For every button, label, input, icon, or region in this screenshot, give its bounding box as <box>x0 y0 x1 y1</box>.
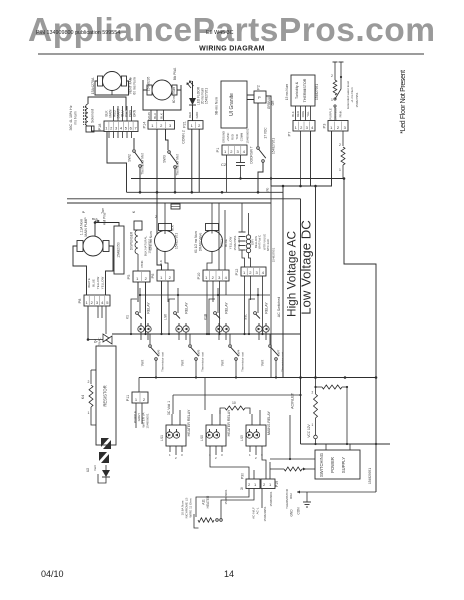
wire relay SSL coil return <box>249 299 255 334</box>
bus line6 triac row <box>112 333 301 335</box>
wires M5 right to P10 <box>218 222 220 270</box>
svg-text:15 ms Num: 15 ms Num <box>285 84 289 101</box>
svg-text:P: P <box>258 95 261 100</box>
svg-text:P8: P8 <box>78 299 82 304</box>
wires HE1 top <box>241 203 243 232</box>
svg-text:Hall Pins: Hall Pins <box>103 212 107 225</box>
svg-text:P30: P30 <box>241 473 245 479</box>
svg-text:9B-ms Num: 9B-ms Num <box>215 97 219 115</box>
motor M3 main pump <box>77 236 109 256</box>
svg-text:AC Switched: AC Switched <box>277 297 281 318</box>
svg-text:K1: K1 <box>126 315 130 319</box>
svg-text:P3: P3 <box>323 124 327 129</box>
svg-text:SSL: SSL <box>244 314 248 320</box>
wire M1 coil link <box>88 97 126 110</box>
svg-text:154A8295: 154A8295 <box>147 77 151 92</box>
svg-text:HEATER RELAY: HEATER RELAY <box>187 409 191 436</box>
svg-text:GRD: GRD <box>195 111 199 119</box>
svg-text:Thermistor swt: Thermistor swt <box>281 352 285 372</box>
svg-text:P10: P10 <box>197 273 201 280</box>
wire relay LS6 coil return <box>169 299 175 334</box>
svg-text:UI Granite: UI Granite <box>229 93 235 116</box>
wire bus4 corner down acinlet <box>300 199 302 395</box>
svg-text:PINK: PINK <box>140 260 144 267</box>
svg-text:U2: U2 <box>86 468 90 472</box>
wire R12 right down <box>346 387 348 444</box>
svg-text:15A4270A: 15A4270A <box>91 77 95 94</box>
svg-text:36C 4L 10% Hz: 36C 4L 10% Hz <box>69 105 73 130</box>
svg-text:TRIAC: TRIAC <box>98 337 102 347</box>
motor M5 drain valve <box>202 224 223 252</box>
svg-text:GREY: GREY <box>137 413 141 422</box>
wire stub P30 pin2 <box>253 470 255 479</box>
svg-text:HEATER RELAY: HEATER RELAY <box>227 409 231 436</box>
diode D2 bottom <box>105 465 107 470</box>
svg-text:NTC 2AC: NTC 2AC <box>266 239 270 251</box>
wire P1 pin1 down <box>226 155 228 192</box>
svg-text:Vent: Vent <box>261 360 265 366</box>
svg-text:ms Num: ms Num <box>74 111 78 124</box>
svg-text:GRN: GRN <box>133 109 137 117</box>
svg-text:RELAY: RELAY <box>185 302 189 314</box>
IC U3 UI Granite board <box>221 81 247 128</box>
connector P14 <box>148 121 175 130</box>
svg-text:CONN 2: CONN 2 <box>182 130 186 144</box>
svg-text:60 ms Num: 60 ms Num <box>172 87 176 104</box>
svg-text:ACINLET: ACINLET <box>291 392 295 409</box>
svg-text:1.11A Nom: 1.11A Nom <box>80 219 84 236</box>
svg-text:BLU: BLU <box>153 113 157 119</box>
resistor R3 <box>341 147 345 165</box>
svg-text:VCC 12V: VCC 12V <box>307 423 311 437</box>
svg-text:1: 1 <box>339 168 341 172</box>
heater element bracket <box>194 514 199 528</box>
svg-text:2: 2 <box>155 215 157 219</box>
bus line2 <box>271 185 332 187</box>
svg-text:MAIN PUMP: MAIN PUMP <box>84 217 88 237</box>
svg-text:1: 1 <box>312 423 314 427</box>
svg-text:1: 1 <box>88 411 90 415</box>
svg-text:K4: K4 <box>81 395 85 399</box>
svg-text:LS6: LS6 <box>164 314 168 320</box>
wire P19 pin down <box>261 489 263 509</box>
thermistor RK2 <box>270 468 284 470</box>
wire mains relay to supply <box>289 415 291 459</box>
svg-text:Solenoid: Solenoid <box>91 109 95 123</box>
svg-text:MAIN: MAIN <box>147 112 151 120</box>
svg-text:LS1: LS1 <box>160 435 164 441</box>
svg-text:154827951: 154827951 <box>175 233 179 249</box>
wire step down right side <box>375 444 377 492</box>
svg-text:2: 2 <box>130 77 132 81</box>
wire P5 pins down <box>137 282 139 302</box>
svg-text:HEATER: HEATER <box>206 495 210 508</box>
wire doorsw vertical lower <box>270 186 272 378</box>
svg-text:PURPLE: PURPLE <box>329 108 333 120</box>
wire P3 pin1 to bus2 <box>330 131 332 186</box>
svg-text:RED: RED <box>296 111 300 117</box>
svg-text:154827951: 154827951 <box>315 84 319 100</box>
svg-text:Vio: Vio <box>266 188 270 193</box>
switch SW1 door switch <box>257 147 260 150</box>
relay module LS5 <box>246 425 266 446</box>
svg-text:BLK: BLK <box>291 111 295 117</box>
wire bus1 to step down <box>344 179 376 445</box>
wire L1 to P5 <box>137 254 139 271</box>
resistor module RESISTOR <box>96 346 116 445</box>
svg-text:RELAY: RELAY <box>147 302 151 314</box>
relay SSL <box>257 288 259 313</box>
connector P21 <box>188 121 203 130</box>
svg-text:Turbidity &: Turbidity & <box>295 81 299 99</box>
wire P10 pins down <box>206 281 208 334</box>
svg-text:*Led Floor Not Present: *Led Floor Not Present <box>400 70 407 134</box>
bus line3 <box>127 191 284 193</box>
connector P19 <box>261 479 275 489</box>
P18 pin stubs <box>108 132 110 139</box>
svg-text:154806001: 154806001 <box>146 413 150 428</box>
wire AC switched vertical <box>282 186 284 378</box>
inductor L2 wax motor coil <box>246 235 250 239</box>
svg-text:P7: P7 <box>288 132 292 137</box>
svg-text:EII W45 3C: EII W45 3C <box>206 30 234 36</box>
wire P6 pins down <box>161 281 163 334</box>
svg-text:Vent: Vent <box>221 360 225 366</box>
bus line1 <box>131 178 344 180</box>
svg-text:WIRE 11 Ohm: WIRE 11 Ohm <box>189 498 193 518</box>
connector P2 <box>254 91 266 103</box>
connector P30 <box>246 479 260 489</box>
svg-text:DRAIN Valve: DRAIN Valve <box>199 233 203 252</box>
bus line4 long <box>67 198 301 200</box>
svg-text:YELLOW: YELLOW <box>229 237 233 250</box>
relay K1 <box>139 288 141 313</box>
wire SW3 to bus <box>174 169 176 193</box>
svg-text:2: 2 <box>331 74 333 78</box>
switch SW5 thermistor <box>189 334 191 344</box>
wire stub P19 pin2 <box>269 462 271 479</box>
svg-text:ORG: ORG <box>301 110 305 117</box>
svg-text:P/N 134909800 publication 5995: P/N 134909800 publication 599554 <box>36 30 120 36</box>
wire P7 pin2 to bus <box>300 131 302 186</box>
svg-text:154829951: 154829951 <box>263 506 267 521</box>
wire PS bottom rail <box>297 491 376 493</box>
svg-text:SWITCHING: SWITCHING <box>319 453 324 477</box>
wire P12 pins down <box>244 276 246 334</box>
switch SW2 <box>133 138 135 149</box>
wire door switch vertical <box>257 103 259 146</box>
svg-text:P19: P19 <box>275 481 279 487</box>
svg-text:YELLOW: YELLOW <box>96 277 100 290</box>
svg-text:WIRING DIAGRAM: WIRING DIAGRAM <box>199 46 265 53</box>
svg-text:17 VDC: 17 VDC <box>264 127 268 139</box>
bus line5 <box>67 202 271 204</box>
svg-text:61 1/2 ms Num: 61 1/2 ms Num <box>194 231 198 253</box>
svg-text:POWER: POWER <box>330 457 335 473</box>
connector P18 <box>104 121 138 132</box>
wire acinlet corner to bus8 <box>300 395 302 444</box>
wire M4 top to bus5 <box>164 203 166 234</box>
svg-text:GROUND: GROUND <box>222 131 226 143</box>
svg-text:LS0: LS0 <box>200 435 204 441</box>
ground symbol G1 <box>306 492 308 502</box>
relay module LS0 <box>206 425 226 446</box>
connector P6 <box>157 270 174 281</box>
bus line7 <box>139 377 377 379</box>
svg-text:Blk PWA: Blk PWA <box>173 67 177 80</box>
svg-text:BLK: BLK <box>159 260 163 266</box>
relay module LS1 <box>166 425 186 446</box>
wire P14 pin2 long vertical to P6 <box>157 129 162 270</box>
svg-text:C2: C2 <box>221 162 227 167</box>
svg-text:TXD: TXD <box>235 134 239 139</box>
svg-text:RXD: RXD <box>231 134 235 140</box>
connector P1 <box>222 145 247 155</box>
relay LS6 <box>177 288 179 313</box>
wires motor M1 to P18 <box>113 106 115 121</box>
pressure switch S2 chain <box>334 62 336 80</box>
svg-text:15A82050: 15A82050 <box>117 242 121 258</box>
wire P7 pin4 long vertical <box>310 131 312 186</box>
svg-text:P0L 2AC: P0L 2AC <box>237 236 241 249</box>
relay K1B <box>217 288 219 313</box>
svg-text:P14: P14 <box>143 122 147 129</box>
svg-text:1: 1 <box>331 98 333 102</box>
wire low voltage rail <box>315 186 317 378</box>
svg-text:P12: P12 <box>235 269 239 276</box>
resistor R11 nichrome wire <box>198 518 214 522</box>
connector P5 <box>133 271 150 282</box>
resistor R10 <box>225 406 245 410</box>
svg-text:LS5: LS5 <box>240 435 244 441</box>
switch SW6 thermistor <box>149 334 151 344</box>
connector P12 <box>241 267 266 276</box>
svg-text:RELAY: RELAY <box>225 302 229 314</box>
svg-text:+5VDC: +5VDC <box>226 133 230 142</box>
svg-text:154827951: 154827951 <box>205 88 209 104</box>
svg-text:DOORSW T: DOORSW T <box>250 146 254 164</box>
wire pressure switch second leg <box>340 62 342 77</box>
svg-text:P21: P21 <box>183 121 187 128</box>
svg-text:14: 14 <box>224 569 234 579</box>
bus relay feed rail <box>140 294 270 296</box>
bus line8 power <box>301 443 391 445</box>
wire heater relay feeds <box>173 394 301 396</box>
wire M3 left tab loop <box>73 246 87 295</box>
wire pump top <box>94 221 97 224</box>
wire P21 pins to bus <box>191 129 193 192</box>
connector P3 <box>328 121 348 132</box>
svg-text:Low Voltage DC: Low Voltage DC <box>298 220 313 315</box>
svg-text:Thermistor swt: Thermistor swt <box>241 352 245 372</box>
triac U2 pair <box>101 438 109 447</box>
svg-text:154827951: 154827951 <box>355 92 359 107</box>
wire relay K1 coil return <box>131 299 137 334</box>
wire T1 to P18 <box>92 126 105 131</box>
svg-text:154806001: 154806001 <box>269 491 273 506</box>
wires PS1 top feeds <box>325 444 327 450</box>
svg-text:Vent: Vent <box>141 360 145 366</box>
svg-text:154829951: 154829951 <box>368 468 372 484</box>
wire P11 pins down <box>135 403 137 428</box>
wire P8 pins down <box>97 307 99 319</box>
svg-text:BLK: BLK <box>92 217 98 221</box>
svg-text:60 ms Num: 60 ms Num <box>133 77 137 95</box>
heater element HE1 <box>239 231 246 233</box>
svg-text:3C Vdd 1: 3C Vdd 1 <box>167 401 171 415</box>
connector P11 <box>138 378 140 393</box>
fuse F1 <box>171 204 180 209</box>
svg-text:SUPPLY: SUPPLY <box>341 457 346 473</box>
wire P2 right down <box>266 96 271 186</box>
svg-text:RESISTOR: RESISTOR <box>103 385 108 406</box>
resistor K4 bypass <box>91 369 96 371</box>
LED D1 floor led <box>192 81 194 98</box>
svg-text:SW2: SW2 <box>128 154 132 162</box>
svg-text:2: 2 <box>339 143 341 147</box>
svg-text:Thermistor Met: Thermistor Met <box>176 154 180 176</box>
svg-text:RELAY: RELAY <box>265 302 269 314</box>
svg-text:04/10: 04/10 <box>41 569 64 579</box>
wire M1 loop <box>95 81 129 95</box>
connector P7 <box>293 121 315 132</box>
svg-text:RK2: RK2 <box>289 493 293 499</box>
wire P3 pin3 resistor to bus1 <box>342 131 344 146</box>
svg-text:CON: CON <box>297 507 301 515</box>
wire M3 right tab down <box>106 246 114 295</box>
svg-text:THERMISTOR: THERMISTOR <box>303 78 307 102</box>
wire P18 pin1 routing to bus <box>107 132 127 193</box>
resistor R12 horizontal <box>316 386 323 388</box>
inductor L1 dispenser coil <box>134 221 142 230</box>
wire heater loop left <box>196 489 249 518</box>
wire M4 to P6 <box>165 252 168 271</box>
svg-text:SW3: SW3 <box>163 155 167 163</box>
wire M5 to P10 <box>207 252 212 271</box>
label box 15A82050 <box>114 226 124 274</box>
svg-text:BLK: BLK <box>171 225 175 231</box>
svg-text:DISPENSER: DISPENSER <box>130 231 134 250</box>
svg-text:154806001: 154806001 <box>246 128 250 143</box>
svg-text:R: R <box>241 487 244 491</box>
svg-text:PINK: PINK <box>339 111 343 118</box>
svg-text:Vent: Vent <box>181 360 185 366</box>
svg-text:154827951: 154827951 <box>272 138 276 154</box>
svg-text:2: 2 <box>312 391 314 395</box>
svg-text:10: 10 <box>232 401 236 405</box>
wires M2 to P14 pins <box>150 110 152 121</box>
wire M2 loop <box>143 80 181 110</box>
connector P8 <box>84 295 110 306</box>
svg-text:OR: OR <box>271 100 275 105</box>
switch SW7 thermistor <box>269 334 271 344</box>
motor M2 <box>147 80 177 100</box>
svg-text:2: 2 <box>88 380 90 384</box>
motor M1 vent fan <box>98 72 127 91</box>
svg-text:WHT/Val C: WHT/Val C <box>258 235 262 249</box>
motor M4 ste motor <box>155 224 176 252</box>
svg-text:STE ms Num: STE ms Num <box>149 231 153 250</box>
wire relay K1B coil return <box>209 299 215 334</box>
svg-text:High Voltage AC: High Voltage AC <box>285 231 299 317</box>
svg-text:A11: A11 <box>202 499 206 505</box>
svg-text:+1 ms Num: +1 ms Num <box>350 87 354 103</box>
wire LS5 relay to P19 <box>262 452 266 479</box>
svg-text:YEL: YEL <box>306 111 310 117</box>
svg-text:Thermistor Met: Thermistor Met <box>141 153 145 175</box>
svg-text:YELLOW: YELLOW <box>101 277 105 290</box>
transformer T1 solenoid <box>86 104 88 126</box>
svg-text:Thermistor swt: Thermistor swt <box>201 352 205 372</box>
svg-text:RED: RED <box>188 111 192 118</box>
svg-text:P18: P18 <box>98 124 102 131</box>
wire SW2 to bus <box>139 168 141 193</box>
svg-text:K1B: K1B <box>204 314 208 320</box>
wire P8 pin1 to triac bus <box>87 307 89 340</box>
capacitor C2 <box>240 155 242 163</box>
svg-text:P2: P2 <box>257 85 261 90</box>
svg-text:P6: P6 <box>151 274 155 279</box>
wire heater loop right <box>221 489 254 519</box>
svg-text:COMM: COMM <box>240 132 244 141</box>
svg-text:Thermistor swt: Thermistor swt <box>161 352 165 372</box>
svg-text:P11: P11 <box>126 395 130 401</box>
connector P10 <box>203 270 229 281</box>
wire M5 top to bus <box>211 203 213 234</box>
svg-text:Vent: Vent <box>93 465 97 471</box>
wire P7pin4 lower <box>315 378 317 388</box>
svg-text:MAINS RELAY: MAINS RELAY <box>267 410 271 435</box>
svg-text:GREY: GREY <box>220 239 224 248</box>
wires A1 to P7 <box>295 106 297 121</box>
svg-text:BLUE: BLUE <box>92 279 96 287</box>
svg-text:WHITE: WHITE <box>87 278 91 288</box>
svg-text:GND: GND <box>290 509 294 517</box>
svg-text:P1: P1 <box>216 148 220 153</box>
switch SW4 thermistor <box>229 334 231 344</box>
wire U3 to P2 <box>247 94 254 96</box>
header rule <box>38 53 424 55</box>
svg-text:P5: P5 <box>127 275 131 280</box>
sensor A1 turbidity thermistor <box>291 75 315 106</box>
svg-text:AC-L: AC-L <box>256 507 260 514</box>
wire LS0 relay to P30 <box>210 452 249 479</box>
switch SW3 <box>166 129 169 150</box>
svg-text:154827951: 154827951 <box>272 247 276 262</box>
svg-text:ORANGE: ORANGE <box>334 108 338 121</box>
power supply module PS1 <box>315 450 360 479</box>
svg-text:BLK: BLK <box>160 113 164 119</box>
